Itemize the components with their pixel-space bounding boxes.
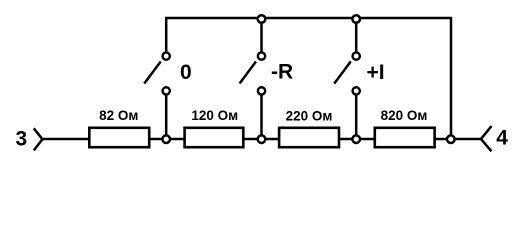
switch SA3 "+I": lever and contact circles (334, 52, 360, 94)
svg-text:0: 0 (180, 61, 192, 84)
wire: switch SA1 lower stub to node N1 (165, 91, 168, 139)
node N2 junction of R2/R3 and switch SA2 (258, 135, 266, 143)
svg-text:120 Ом: 120 Ом (191, 108, 238, 123)
svg-text:-R: -R (271, 60, 293, 83)
switch SA1 "0": lever and contact circles (144, 52, 170, 94)
wire: switch SA2 lower stub to node N2 (260, 91, 263, 139)
terminal 4 connector chevron (481, 126, 492, 151)
node on bus above switch SA2 (258, 15, 266, 23)
svg-text:220 Ом: 220 Ом (286, 108, 333, 123)
wire: switch SA3 lower stub to node N3 (355, 91, 358, 139)
resistor R1 82 Ом (89, 108, 149, 147)
svg-text:4: 4 (496, 127, 508, 150)
node N4 junction of R4, top bus drop and terminal 4 (447, 135, 455, 143)
node on bus above switch SA3 (352, 15, 360, 23)
node N3 junction of R3/R4 and switch SA3 (352, 135, 360, 143)
terminal 3 connector chevron (34, 128, 43, 150)
resistor R3 220 Ом (279, 108, 339, 147)
switch SA2 "-R": lever and contact circles (240, 52, 266, 94)
svg-text:+I: +I (367, 61, 385, 84)
svg-text:820 Ом: 820 Ом (381, 108, 428, 123)
resistor R4 820 Ом (375, 108, 435, 147)
wire: top bus with left drop to switch SA1 and right drop to node N4 (166, 18, 451, 139)
svg-text:3: 3 (16, 128, 28, 151)
wire: switch SA3 upper stub from bus (355, 18, 358, 56)
wire: switch SA2 upper stub from bus (260, 18, 263, 56)
svg-text:82 Ом: 82 Ом (99, 108, 138, 123)
resistor R2 120 Ом (185, 108, 244, 147)
wire: bottom rail from terminal 3 to terminal 4 (42, 138, 481, 141)
node N1 junction of R1/R2 and switch SA1 (162, 135, 170, 143)
